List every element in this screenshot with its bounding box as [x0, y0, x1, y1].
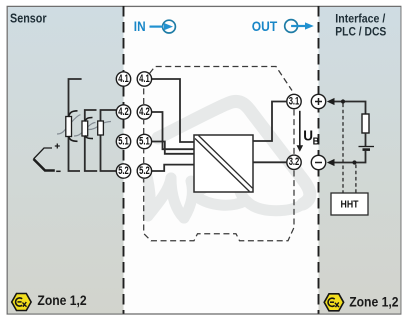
- Ex symbol left: [12, 294, 31, 311]
- svg-text:5.1: 5.1: [139, 135, 150, 147]
- svg-text:4.2: 4.2: [118, 106, 129, 118]
- wire 4.2 to isolator: [152, 112, 194, 149]
- wire isolator to 3.2: [253, 161, 286, 163]
- svg-text:3.2: 3.2: [289, 156, 300, 168]
- wire plus terminal to resistor: [334, 102, 366, 115]
- HHT box: [331, 193, 368, 215]
- svg-text:5.2: 5.2: [139, 165, 150, 177]
- resistor R2 (RTD): [74, 118, 96, 139]
- svg-text:4.1: 4.1: [139, 73, 150, 85]
- RTD R1 bottom wire: [69, 137, 81, 172]
- RTD R3 top wire to terminal 4.2: [101, 110, 117, 121]
- junction on minus wire: [352, 160, 356, 164]
- wire isolator to 3.1: [253, 102, 286, 142]
- junction on plus wire: [341, 99, 345, 103]
- wire resistor to battery: [365, 133, 367, 146]
- terminal 4.1 (device side): [137, 72, 151, 86]
- svg-text:PLC / DCS: PLC / DCS: [335, 25, 386, 39]
- wire 5.1 to isolator: [152, 142, 194, 154]
- zone boundary dashed line left: [123, 6, 125, 314]
- terminal 3.1: [287, 94, 301, 108]
- terminal 5.2 (zone side): [116, 164, 130, 178]
- terminal plus: [311, 94, 325, 108]
- wire battery to minus terminal: [334, 151, 366, 163]
- device dashed outline: [144, 67, 294, 241]
- RTD R2 bottom wire: [85, 136, 97, 171]
- svg-text:5.1: 5.1: [118, 135, 129, 147]
- RTD sensor wiring: stub at 4.1 level: [69, 79, 82, 117]
- arrow into plus terminal: [327, 98, 335, 105]
- terminal 4.2 (zone side): [116, 105, 130, 119]
- terminal 5.1 (zone side): [116, 134, 130, 148]
- Ex symbol right: [324, 294, 343, 311]
- Interface zone panel: [319, 7, 401, 314]
- watermark: [146, 101, 310, 218]
- Sensor zone panel: [8, 7, 124, 314]
- U_B arrow: [297, 111, 304, 152]
- resistor (load): [362, 114, 369, 133]
- OUT marker icon: [285, 20, 314, 33]
- thermocouple: [34, 144, 61, 172]
- arrow into minus terminal: [327, 159, 335, 166]
- svg-text:3.1: 3.1: [289, 95, 300, 107]
- svg-text:4.2: 4.2: [139, 106, 150, 118]
- RTD R3 bottom wire to terminal 5.2: [101, 135, 117, 171]
- RTD R2 top stub wire: [85, 110, 97, 121]
- terminal 4.1 (zone side): [116, 72, 130, 86]
- svg-text:Zone 1,2: Zone 1,2: [349, 294, 398, 309]
- dashed lead plus to HHT: [342, 104, 344, 194]
- svg-text:HHT: HHT: [341, 200, 359, 211]
- terminal 4.2 (device side): [137, 105, 151, 119]
- svg-text:5.2: 5.2: [118, 165, 129, 177]
- terminal minus: [311, 155, 325, 169]
- svg-text:OUT: OUT: [252, 18, 278, 34]
- svg-text:Interface /: Interface /: [335, 11, 385, 25]
- dashed lead minus to HHT: [355, 165, 357, 194]
- svg-text:Zone 1,2: Zone 1,2: [37, 293, 86, 308]
- resistor R3 (RTD): [89, 121, 112, 135]
- battery B1: [359, 147, 375, 150]
- svg-text:4.1: 4.1: [118, 73, 129, 85]
- wire 5.2 to isolator: [152, 165, 194, 171]
- svg-text:IN: IN: [134, 18, 146, 34]
- isolation amplifier symbol: [194, 135, 253, 192]
- svg-text:Sensor: Sensor: [10, 10, 47, 25]
- IN marker icon: [150, 20, 176, 33]
- terminal 5.1 (device side): [137, 134, 151, 148]
- svg-text:B: B: [313, 136, 320, 148]
- terminal 5.2 (device side): [137, 164, 151, 178]
- wire 4.1 to isolator: [152, 79, 194, 142]
- zone boundary dashed line right: [318, 6, 320, 314]
- terminal 3.2: [287, 155, 301, 169]
- resistor R1 (RTD): [57, 111, 81, 142]
